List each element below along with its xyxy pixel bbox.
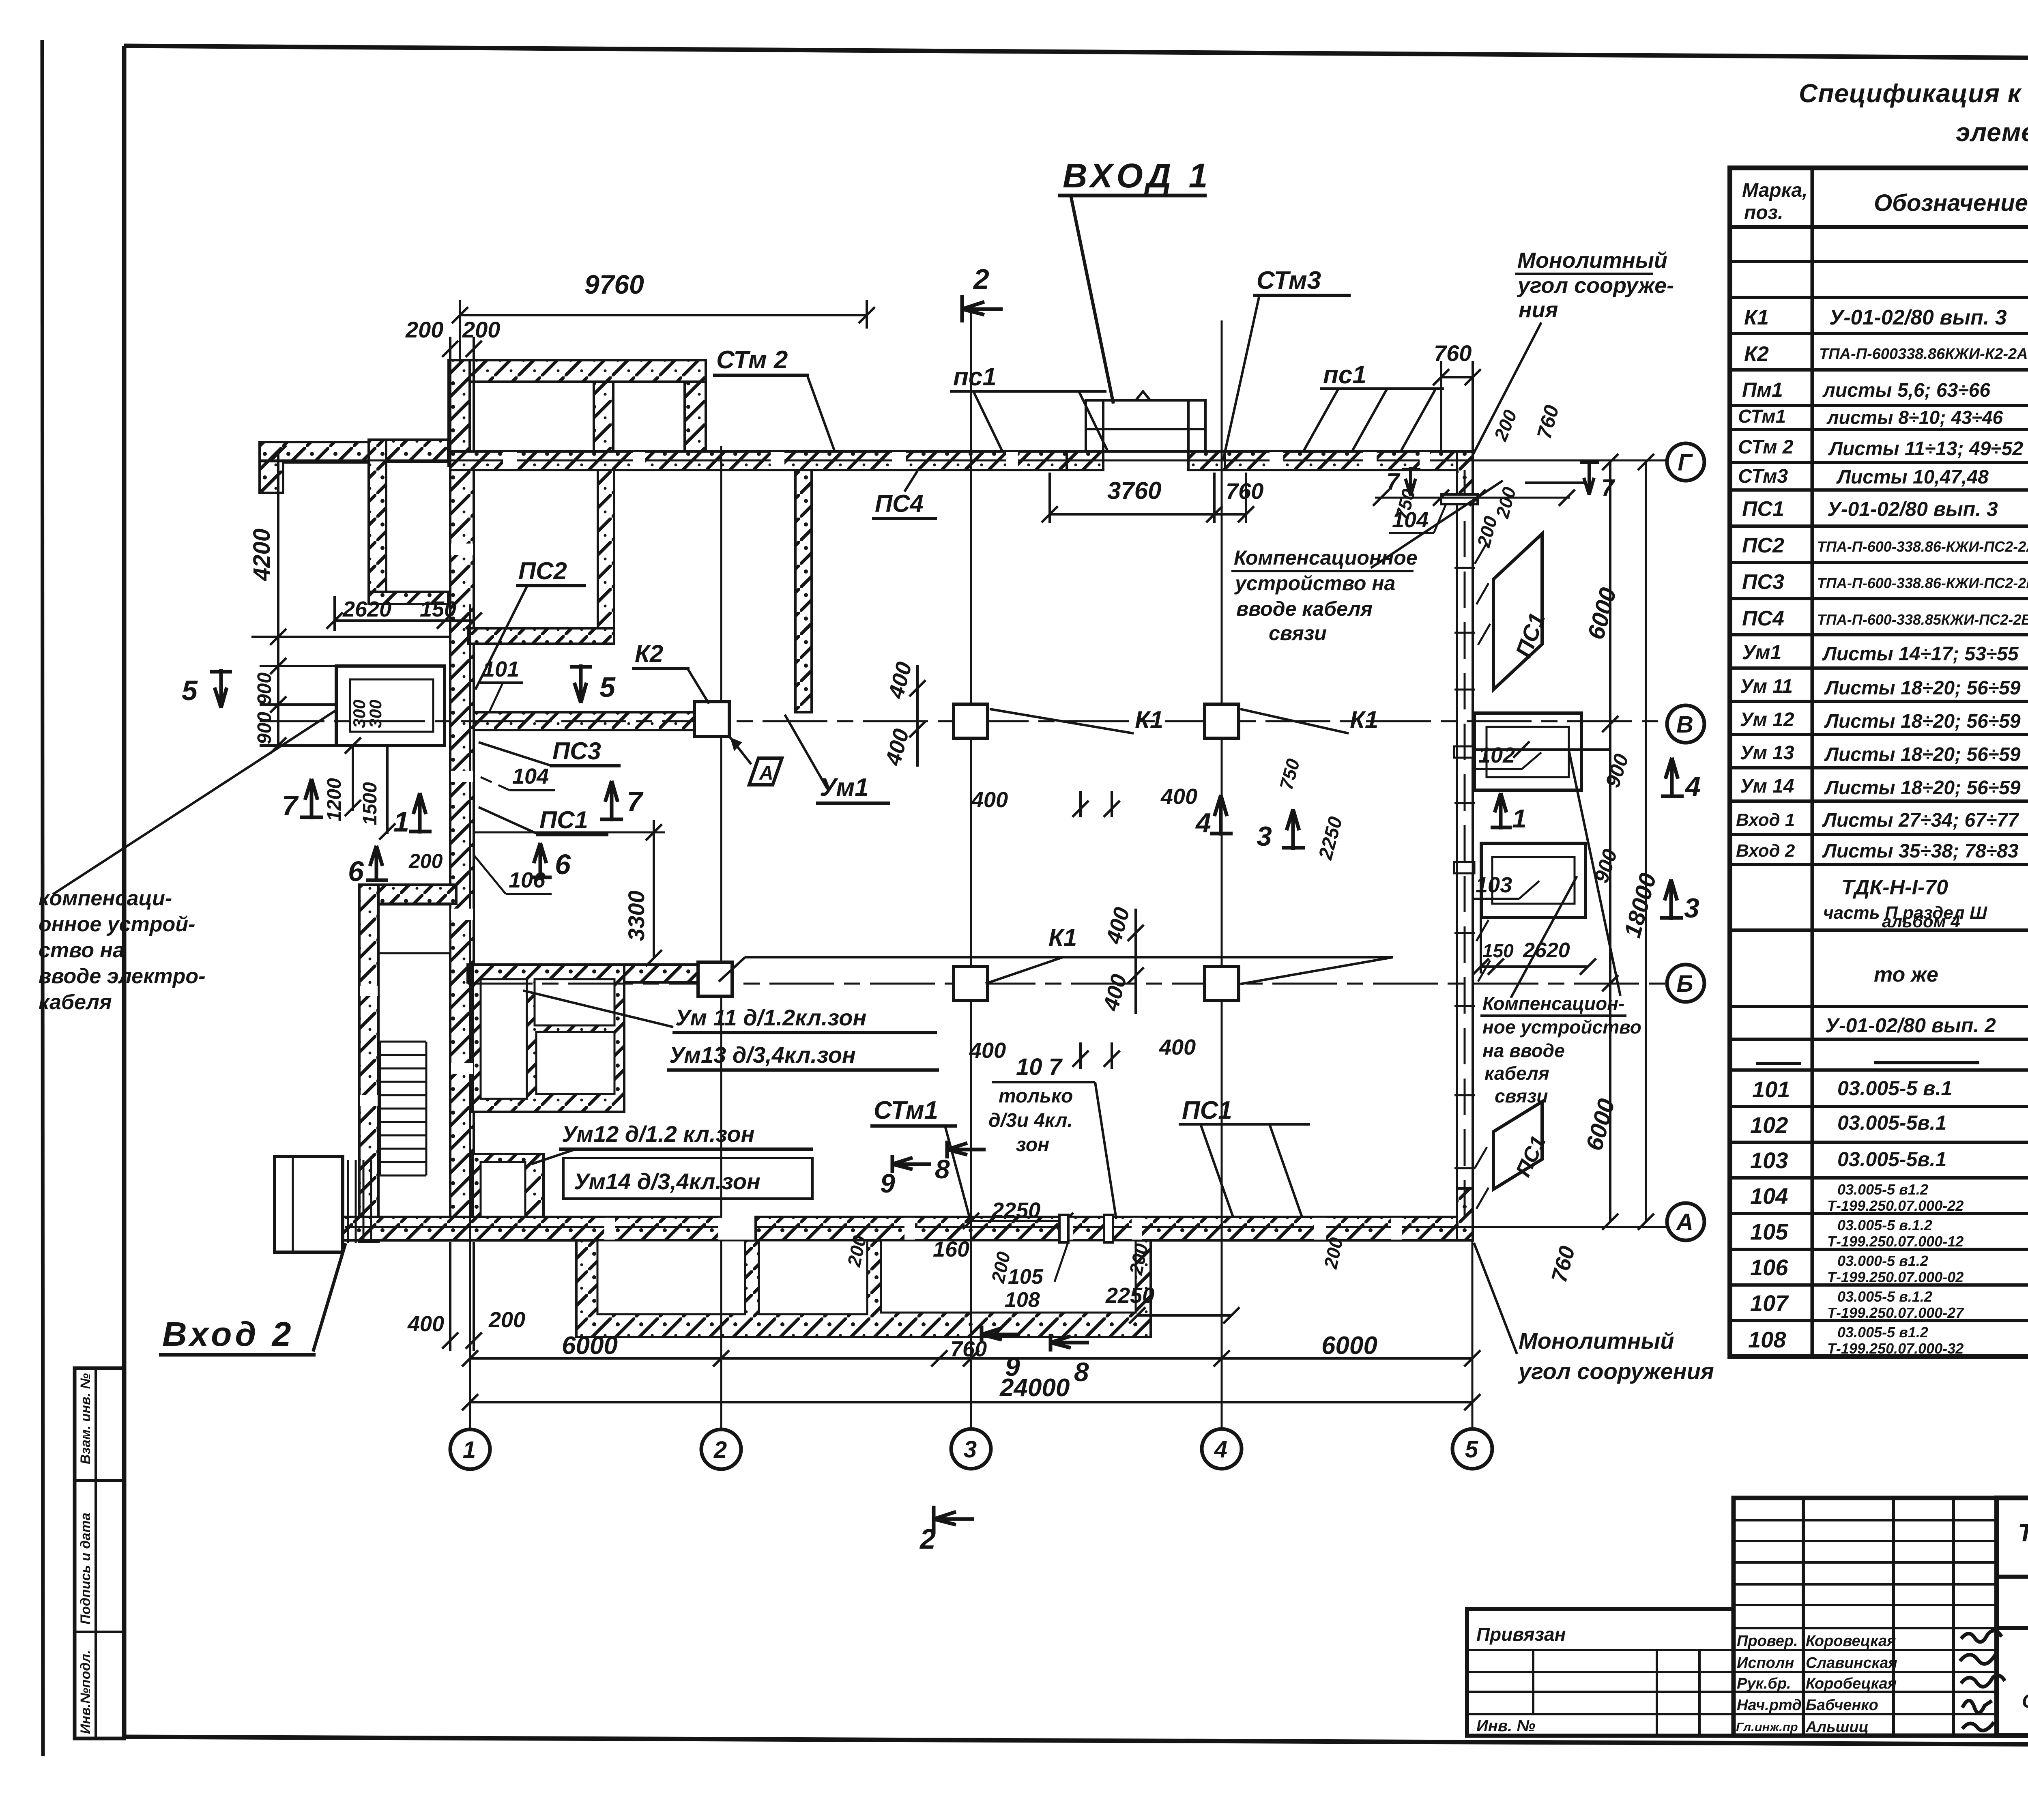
right kompensats box lower bbox=[1454, 843, 1585, 918]
svg-text:пс1: пс1 bbox=[953, 363, 997, 391]
svg-text:03.005-5 в1.2: 03.005-5 в1.2 bbox=[1837, 1324, 1928, 1341]
svg-text:Монолитный: Монолитный bbox=[1519, 1328, 1674, 1354]
west main wall bbox=[450, 470, 474, 1218]
svg-text:Листы 27÷34; 67÷77: Листы 27÷34; 67÷77 bbox=[1822, 810, 2019, 831]
dim 3300 vertical bbox=[653, 820, 655, 958]
bottom annex band bbox=[576, 1240, 1151, 1337]
svg-text:ТПА-П-600-338.86-КЖИ-ПС2-2Б: ТПА-П-600-338.86-КЖИ-ПС2-2Б bbox=[1817, 575, 2028, 591]
svg-text:200: 200 bbox=[408, 850, 443, 872]
svg-text:3760: 3760 bbox=[1107, 477, 1161, 504]
right kompensats box upper bbox=[1454, 713, 1581, 790]
dim 2250 below bottom wall right bbox=[1137, 1314, 1231, 1317]
west outer wall lower bbox=[359, 885, 378, 1242]
svg-text:ПС2: ПС2 bbox=[518, 557, 567, 584]
top annex right wall bbox=[685, 382, 706, 451]
column K1 at V-4 bbox=[1205, 704, 1239, 738]
svg-text:1500: 1500 bbox=[359, 782, 381, 825]
svg-text:Ум 14: Ум 14 bbox=[1740, 776, 1794, 797]
svg-text:У-01-02/80 вып. 3: У-01-02/80 вып. 3 bbox=[1829, 306, 2007, 329]
svg-text:03.005-5в.1: 03.005-5в.1 bbox=[1837, 1148, 1946, 1171]
svg-text:К2: К2 bbox=[635, 640, 663, 667]
lower-left annex top wall bbox=[360, 885, 456, 904]
svg-text:4: 4 bbox=[1214, 1436, 1227, 1463]
svg-text:6000: 6000 bbox=[1321, 1332, 1377, 1360]
svg-text:Ум1: Ум1 bbox=[1742, 641, 1781, 664]
svg-text:200: 200 bbox=[462, 317, 500, 342]
svg-text:Монолитный: Монолитный bbox=[1517, 248, 1667, 273]
svg-text:104: 104 bbox=[512, 764, 549, 789]
svg-text:ство на: ство на bbox=[39, 939, 125, 962]
svg-text:Инв.№подл.: Инв.№подл. bbox=[78, 1650, 93, 1734]
svg-text:К1: К1 bbox=[1350, 706, 1378, 733]
top annex top wall bbox=[449, 360, 706, 382]
axis B horizontal bbox=[468, 983, 1666, 985]
svg-text:108: 108 bbox=[1748, 1327, 1786, 1352]
dim 3760 line bbox=[1048, 473, 1051, 523]
svg-text:К2: К2 bbox=[1744, 342, 1769, 366]
svg-text:Подпись и дата: Подпись и дата bbox=[78, 1513, 93, 1624]
svg-text:103: 103 bbox=[1750, 1147, 1788, 1173]
dim 2620 150 bbox=[333, 596, 336, 631]
svg-text:107: 107 bbox=[1750, 1290, 1789, 1316]
svg-text:элементов подвала.: элементов подвала. bbox=[1956, 118, 2028, 147]
dim 400 200 bottom left bbox=[449, 1242, 451, 1351]
svg-text:Спецификация к схеме распол: Спецификация к схеме расположения bbox=[1799, 79, 2028, 108]
svg-text:150: 150 bbox=[420, 597, 456, 621]
svg-text:ТПА-П-600-338.85КЖИ-ПС2-2В: ТПА-П-600-338.85КЖИ-ПС2-2В bbox=[1817, 611, 2028, 628]
svg-text:Вход 2: Вход 2 bbox=[162, 1315, 294, 1353]
svg-text:У-01-02/80 вып. 3: У-01-02/80 вып. 3 bbox=[1827, 498, 1998, 520]
svg-text:Листы 14÷17; 53÷55: Листы 14÷17; 53÷55 bbox=[1822, 643, 2019, 665]
svg-text:поз.: поз. bbox=[1744, 202, 1783, 223]
svg-text:Вход 2: Вход 2 bbox=[1736, 841, 1795, 861]
panel joint ticks on right wall bbox=[1454, 568, 1475, 1168]
svg-text:Марка,: Марка, bbox=[1742, 180, 1808, 201]
svg-text:ВХОД 1: ВХОД 1 bbox=[1063, 157, 1212, 195]
105 108 leader bbox=[1055, 1240, 1069, 1282]
svg-text:Коровецкая: Коровецкая bbox=[1806, 1633, 1896, 1650]
svg-text:СТм3: СТм3 bbox=[1738, 466, 1788, 487]
svg-text:Б: Б bbox=[1676, 971, 1693, 997]
svg-text:Ум14 д/3,4кл.зон: Ум14 д/3,4кл.зон bbox=[574, 1169, 760, 1194]
svg-text:К1: К1 bbox=[1744, 306, 1769, 329]
svg-text:03.005-5 в.1.2: 03.005-5 в.1.2 bbox=[1837, 1217, 1932, 1233]
svg-text:8: 8 bbox=[1074, 1357, 1089, 1387]
svg-text:106: 106 bbox=[1750, 1255, 1788, 1280]
svg-text:Схема расположения: Схема расположения bbox=[2022, 1691, 2028, 1712]
svg-text:6000: 6000 bbox=[562, 1332, 618, 1360]
right axis bubbles bbox=[1667, 443, 1704, 481]
svg-text:3: 3 bbox=[964, 1436, 977, 1463]
vertical 400 dim near V bbox=[916, 665, 919, 767]
svg-text:9: 9 bbox=[1005, 1352, 1020, 1382]
left block top band bbox=[369, 440, 448, 462]
svg-text:760: 760 bbox=[1434, 340, 1472, 366]
top annex middle wall bbox=[594, 382, 613, 451]
svg-text:К1: К1 bbox=[1135, 706, 1163, 733]
svg-text:Коробецкая: Коробецкая bbox=[1806, 1675, 1897, 1692]
svg-text:Нач.ртд: Нач.ртд bbox=[1737, 1697, 1802, 1714]
svg-text:Гл.инж.пр: Гл.инж.пр bbox=[1736, 1720, 1798, 1734]
svg-text:105: 105 bbox=[1008, 1265, 1044, 1289]
svg-text:А: А bbox=[1676, 1209, 1693, 1236]
svg-text:ТПА-П-600338.86КЖИ-К2-2А: ТПА-П-600338.86КЖИ-К2-2А bbox=[1819, 346, 2028, 363]
svg-text:2: 2 bbox=[713, 1437, 727, 1463]
Um11 rooms block walls bbox=[473, 965, 624, 1112]
axis V horizontal bbox=[260, 720, 1666, 722]
svg-text:03.000-5 в1.2: 03.000-5 в1.2 bbox=[1837, 1253, 1928, 1269]
svg-text:102: 102 bbox=[1750, 1112, 1788, 1138]
svg-text:105: 105 bbox=[1750, 1219, 1788, 1244]
svg-text:ПС3: ПС3 bbox=[552, 737, 601, 765]
axis 5 vertical below wall bbox=[1472, 1241, 1474, 1429]
svg-text:Т-199.250.07.000-32: Т-199.250.07.000-32 bbox=[1827, 1340, 1964, 1357]
svg-text:пс1: пс1 bbox=[1323, 361, 1366, 389]
svg-text:Листы 18÷20; 56÷59: Листы 18÷20; 56÷59 bbox=[1824, 777, 2021, 799]
Um12 room walls bbox=[473, 1154, 544, 1225]
axis 2 vertical bbox=[720, 446, 722, 1429]
svg-text:ПС3: ПС3 bbox=[1742, 570, 1784, 594]
PS2 room right wall bbox=[598, 470, 614, 643]
panel slants right wall bbox=[1475, 543, 1490, 1209]
svg-text:Обозначение: Обозначение bbox=[1874, 190, 2028, 216]
wall G band left stub bbox=[260, 442, 369, 462]
lower-left annex room bbox=[378, 905, 450, 953]
svg-text:8: 8 bbox=[935, 1154, 950, 1184]
svg-text:400: 400 bbox=[1159, 1035, 1196, 1059]
wall G band right of entrance bbox=[1205, 451, 1472, 470]
column K1 at B-4 bbox=[1205, 967, 1239, 1001]
svg-text:4: 4 bbox=[1195, 808, 1211, 838]
dim line under 7 markers bbox=[1375, 497, 1570, 499]
svg-text:ТПА-П-600-338.86-КЖИ-ПС2-2А: ТПА-П-600-338.86-КЖИ-ПС2-2А bbox=[1817, 538, 2028, 555]
dim 760 top right bbox=[1441, 376, 1473, 378]
svg-text:Г: Г bbox=[1678, 449, 1693, 476]
dim 150 2620 below lower box bbox=[1480, 918, 1482, 973]
svg-text:104: 104 bbox=[1392, 508, 1429, 532]
walls bbox=[260, 360, 1585, 1337]
vertical 400 dim near B bbox=[1134, 909, 1137, 1014]
svg-text:связи: связи bbox=[1495, 1085, 1548, 1107]
svg-text:03.005-5 в.1.2: 03.005-5 в.1.2 bbox=[1837, 1288, 1932, 1305]
right wall bottom corner hatch bbox=[1457, 1188, 1473, 1240]
svg-text:2: 2 bbox=[973, 263, 989, 295]
svg-text:Альшиц: Альшиц bbox=[1805, 1719, 1869, 1736]
vhod1 entrance stairs above wall G bbox=[1086, 391, 1205, 451]
column K1 at B-2 bbox=[698, 962, 732, 996]
wall G white joints bbox=[503, 452, 1430, 469]
svg-text:101: 101 bbox=[483, 657, 519, 681]
spec table row lines bbox=[1730, 225, 2028, 229]
svg-text:угол сооруже-: угол сооруже- bbox=[1517, 273, 1674, 298]
svg-text:2250: 2250 bbox=[1105, 1283, 1154, 1308]
svg-text:листы 8÷10; 43÷46: листы 8÷10; 43÷46 bbox=[1826, 407, 2003, 428]
svg-text:7: 7 bbox=[627, 786, 644, 817]
svg-text:ния: ния bbox=[1519, 298, 1558, 322]
svg-text:6: 6 bbox=[348, 855, 364, 887]
vhod2 porch bbox=[275, 1156, 343, 1252]
right wall double line detail bbox=[1454, 470, 1475, 1217]
column K2 at V-2 bbox=[694, 702, 729, 737]
wall A white joints bbox=[604, 1218, 1402, 1240]
svg-text:вводе электро-: вводе электро- bbox=[39, 965, 206, 988]
svg-text:листы 5,6; 63÷66: листы 5,6; 63÷66 bbox=[1822, 380, 1990, 401]
svg-text:400: 400 bbox=[1160, 784, 1197, 809]
svg-text:760: 760 bbox=[1226, 478, 1263, 504]
svg-text:5: 5 bbox=[1465, 1436, 1478, 1463]
Um14 boxed label bbox=[563, 1158, 812, 1199]
svg-text:Ум 12: Ум 12 bbox=[1740, 709, 1794, 731]
svg-text:то же: то же bbox=[1874, 963, 1938, 986]
svg-text:ПС2: ПС2 bbox=[1742, 534, 1784, 557]
svg-text:Привязан: Привязан bbox=[1476, 1624, 1566, 1645]
svg-text:400: 400 bbox=[969, 1038, 1006, 1063]
svg-text:03.005-5 в.1: 03.005-5 в.1 bbox=[1837, 1077, 1952, 1100]
svg-text:101: 101 bbox=[1752, 1077, 1790, 1102]
svg-text:онное устрой-: онное устрой- bbox=[39, 913, 195, 936]
svg-text:2620: 2620 bbox=[342, 597, 391, 621]
dim ticks 400 400 at V column bbox=[1079, 791, 1082, 817]
columns bbox=[694, 702, 1239, 1001]
svg-text:Бабченко: Бабченко bbox=[1806, 1697, 1878, 1714]
svg-text:3300: 3300 bbox=[623, 890, 649, 941]
dim 2250 above bottom wall bbox=[971, 1220, 1065, 1222]
svg-text:10 7: 10 7 bbox=[1016, 1054, 1063, 1080]
svg-text:угол сооружения: угол сооружения bbox=[1517, 1358, 1714, 1384]
axis 1 vertical bbox=[469, 604, 471, 1429]
svg-text:03.005-5в.1: 03.005-5в.1 bbox=[1837, 1111, 1946, 1134]
svg-text:Ум13 д/3,4кл.зон: Ум13 д/3,4кл.зон bbox=[669, 1042, 856, 1068]
bottom dim 24000 line bbox=[470, 1401, 1472, 1403]
svg-text:2620: 2620 bbox=[1523, 939, 1570, 962]
dim ticks 400 400 at B column bbox=[1079, 1042, 1082, 1069]
svg-text:В: В bbox=[1676, 711, 1693, 738]
svg-text:СТм1: СТм1 bbox=[874, 1096, 938, 1124]
PS1 flag right lower bbox=[1493, 1102, 1542, 1189]
svg-text:7: 7 bbox=[1601, 475, 1616, 501]
svg-text:400: 400 bbox=[407, 1312, 444, 1336]
svg-text:А: А bbox=[759, 763, 773, 784]
PS1 flag right upper bbox=[1493, 534, 1542, 690]
svg-text:Компенсацион-: Компенсацион- bbox=[1482, 993, 1624, 1014]
svg-text:СТм1: СТм1 bbox=[1738, 406, 1786, 427]
svg-text:д/3и 4кл.: д/3и 4кл. bbox=[988, 1110, 1073, 1131]
svg-text:ТПА-П-600-338.86: ТПА-П-600-338.86 bbox=[2018, 1519, 2028, 1547]
row blank dashes bbox=[1756, 1062, 1801, 1065]
svg-text:Исполн: Исполн bbox=[1737, 1655, 1794, 1672]
svg-text:только: только bbox=[999, 1085, 1073, 1107]
spec table outer box bbox=[1730, 168, 2028, 1356]
svg-text:300: 300 bbox=[366, 700, 385, 728]
svg-text:СТм 2: СТм 2 bbox=[716, 346, 788, 374]
svg-text:Славинская: Славинская bbox=[1806, 1655, 1897, 1672]
bottom axis bubbles bbox=[450, 443, 1704, 1469]
svg-text:Рук.бр.: Рук.бр. bbox=[1737, 1675, 1791, 1692]
svg-text:102: 102 bbox=[1478, 743, 1515, 767]
svg-text:ПС1: ПС1 bbox=[1742, 497, 1784, 521]
dim 750 under V right bbox=[1473, 748, 1610, 751]
bottom dim 6000 line bbox=[470, 1357, 1472, 1360]
svg-text:5: 5 bbox=[182, 675, 198, 706]
G stub vertical return bbox=[260, 461, 283, 493]
left binding strip box bbox=[75, 1368, 124, 1738]
svg-text:У-01-02/80 вып. 2: У-01-02/80 вып. 2 bbox=[1825, 1014, 1996, 1037]
dims 1200 1500 bbox=[352, 746, 354, 811]
svg-text:200: 200 bbox=[488, 1308, 525, 1332]
svg-text:1: 1 bbox=[1512, 804, 1527, 833]
svg-text:03.005-5 в1.2: 03.005-5 в1.2 bbox=[1837, 1181, 1928, 1198]
privyazan mini table bbox=[1467, 1609, 1734, 1736]
svg-text:900: 900 bbox=[254, 673, 275, 705]
sheet frame bottom bbox=[124, 1737, 2028, 1746]
outer trim line left bbox=[42, 40, 43, 1756]
right dim chain 18000 bbox=[1645, 462, 1647, 1222]
axis grid thin lines bbox=[260, 312, 1666, 1429]
A flag bbox=[749, 758, 782, 785]
left block bottom wall bbox=[369, 592, 448, 604]
Um1 right wall bbox=[795, 470, 812, 712]
svg-text:1200: 1200 bbox=[324, 778, 345, 821]
svg-text:кабеля: кабеля bbox=[1484, 1063, 1549, 1084]
svg-text:Листы 18÷20; 56÷59: Листы 18÷20; 56÷59 bbox=[1824, 744, 2021, 765]
sheet frame left bbox=[122, 46, 127, 1737]
svg-text:103: 103 bbox=[1476, 873, 1512, 897]
column K1 at B-3 bbox=[954, 967, 988, 1001]
left block top room left wall bbox=[369, 440, 386, 604]
svg-text:К1: К1 bbox=[1048, 924, 1077, 951]
svg-text:5: 5 bbox=[599, 671, 616, 703]
svg-text:Т-199.250.07.000-12: Т-199.250.07.000-12 bbox=[1827, 1233, 1964, 1250]
bottom wall A band bbox=[343, 1217, 720, 1240]
axis G horizontal bbox=[260, 460, 1666, 462]
wall band on axis B bbox=[468, 965, 699, 982]
svg-text:ПС1: ПС1 bbox=[1182, 1096, 1232, 1124]
svg-text:Ум 11 д/1.2кл.зон: Ум 11 д/1.2кл.зон bbox=[675, 1005, 866, 1030]
sheet frame top bbox=[124, 46, 2028, 61]
svg-text:Т-199.250.07.000-27: Т-199.250.07.000-27 bbox=[1827, 1304, 1964, 1321]
svg-text:104: 104 bbox=[1750, 1183, 1788, 1209]
svg-text:2250: 2250 bbox=[991, 1198, 1040, 1223]
right wall top corner hatch bbox=[1457, 451, 1473, 500]
title block right box bbox=[1997, 1498, 2028, 1736]
wall G band left of entrance bbox=[450, 451, 1086, 470]
signature squiggles bbox=[1960, 1631, 2005, 1730]
svg-text:связи: связи bbox=[1269, 622, 1327, 645]
svg-text:400: 400 bbox=[971, 788, 1008, 812]
svg-text:Т-199.250.07.000-22: Т-199.250.07.000-22 bbox=[1827, 1197, 1964, 1214]
svg-text:Листы 11÷13; 49÷52: Листы 11÷13; 49÷52 bbox=[1828, 438, 2023, 460]
left dim chain 4200/900/900 bbox=[277, 453, 279, 746]
svg-text:на вводе: на вводе bbox=[1482, 1040, 1565, 1061]
svg-text:Листы 18÷20; 56÷59: Листы 18÷20; 56÷59 bbox=[1824, 677, 2021, 699]
svg-text:6: 6 bbox=[555, 849, 571, 880]
PS2 room bottom wall bbox=[468, 628, 614, 644]
svg-text:ПС4: ПС4 bbox=[875, 490, 924, 517]
svg-text:СТм 2: СТм 2 bbox=[1738, 436, 1794, 458]
svg-text:4200: 4200 bbox=[249, 529, 275, 581]
svg-text:зон: зон bbox=[1016, 1134, 1049, 1156]
svg-text:7: 7 bbox=[282, 790, 299, 821]
svg-text:ное устройство: ное устройство bbox=[1482, 1016, 1641, 1038]
left kompensats box bbox=[336, 666, 445, 746]
svg-text:Пм1: Пм1 bbox=[1742, 378, 1783, 401]
svg-text:альбом 4: альбом 4 bbox=[1882, 912, 1960, 931]
wall band on axis V bbox=[474, 712, 704, 730]
svg-text:Ум 13: Ум 13 bbox=[1740, 742, 1794, 764]
west wall white joints bbox=[360, 544, 473, 1106]
svg-text:108: 108 bbox=[1005, 1288, 1040, 1312]
vhod1 jamb hatch left bbox=[1067, 451, 1103, 470]
right dim chain 6000/6000 bbox=[1609, 462, 1611, 1222]
svg-text:кабеля: кабеля bbox=[39, 991, 112, 1014]
vhod1 jamb hatch right bbox=[1188, 451, 1225, 470]
plate 104 top right bbox=[1441, 494, 1478, 504]
svg-text:1: 1 bbox=[463, 1437, 476, 1463]
svg-text:160: 160 bbox=[933, 1237, 969, 1261]
svg-text:4: 4 bbox=[1684, 771, 1701, 802]
column K1 at V-3 bbox=[954, 704, 988, 738]
svg-text:Листы 35÷38; 78÷83: Листы 35÷38; 78÷83 bbox=[1822, 840, 2019, 862]
svg-text:ПС1: ПС1 bbox=[539, 806, 588, 834]
axis A horizontal bbox=[345, 1226, 1666, 1228]
axis 3 vertical bbox=[970, 312, 972, 1429]
dim 200 200 ticks top left bbox=[449, 337, 451, 451]
svg-text:Листы 10,47,48: Листы 10,47,48 bbox=[1836, 466, 1989, 488]
svg-text:устройство на: устройство на bbox=[1234, 572, 1395, 595]
svg-text:Вход 1: Вход 1 bbox=[1736, 810, 1795, 830]
svg-text:Провер.: Провер. bbox=[1737, 1633, 1798, 1650]
top annex left wall bbox=[449, 360, 470, 466]
right wall on axis 5 bbox=[1457, 451, 1473, 1240]
svg-text:вводе кабеля: вводе кабеля bbox=[1236, 597, 1373, 620]
title block signature grid bbox=[1734, 1498, 1997, 1736]
stair treads vhod2 bbox=[380, 1042, 426, 1175]
spec table column lines bbox=[1811, 168, 1814, 1356]
svg-text:9760: 9760 bbox=[584, 269, 644, 299]
svg-text:Взам. инв. №: Взам. инв. № bbox=[78, 1373, 93, 1464]
svg-text:3: 3 bbox=[1684, 893, 1699, 924]
svg-text:3: 3 bbox=[1257, 821, 1272, 852]
svg-text:150: 150 bbox=[1482, 940, 1514, 961]
dim 9760 line bbox=[460, 314, 867, 316]
svg-text:СТм3: СТм3 bbox=[1257, 266, 1321, 294]
svg-text:200: 200 bbox=[405, 317, 443, 342]
svg-text:Ум 11: Ум 11 bbox=[1740, 676, 1793, 697]
svg-text:Т-199.250.07.000-02: Т-199.250.07.000-02 bbox=[1827, 1269, 1964, 1285]
svg-text:Инв. №: Инв. № bbox=[1476, 1717, 1535, 1735]
svg-text:Листы 18÷20; 56÷59: Листы 18÷20; 56÷59 bbox=[1824, 711, 2021, 732]
svg-text:Компенсационное: Компенсационное bbox=[1234, 546, 1418, 569]
plates in bottom wall bbox=[1059, 1215, 1068, 1242]
svg-text:900: 900 bbox=[254, 712, 275, 744]
svg-text:Ум12 д/1.2 кл.зон: Ум12 д/1.2 кл.зон bbox=[562, 1121, 754, 1147]
svg-text:ПС4: ПС4 bbox=[1742, 607, 1784, 630]
svg-text:1: 1 bbox=[393, 806, 409, 838]
axis 4 vertical bbox=[1221, 320, 1223, 1429]
svg-text:ТДК-Н-I-70: ТДК-Н-I-70 bbox=[1841, 876, 1948, 899]
